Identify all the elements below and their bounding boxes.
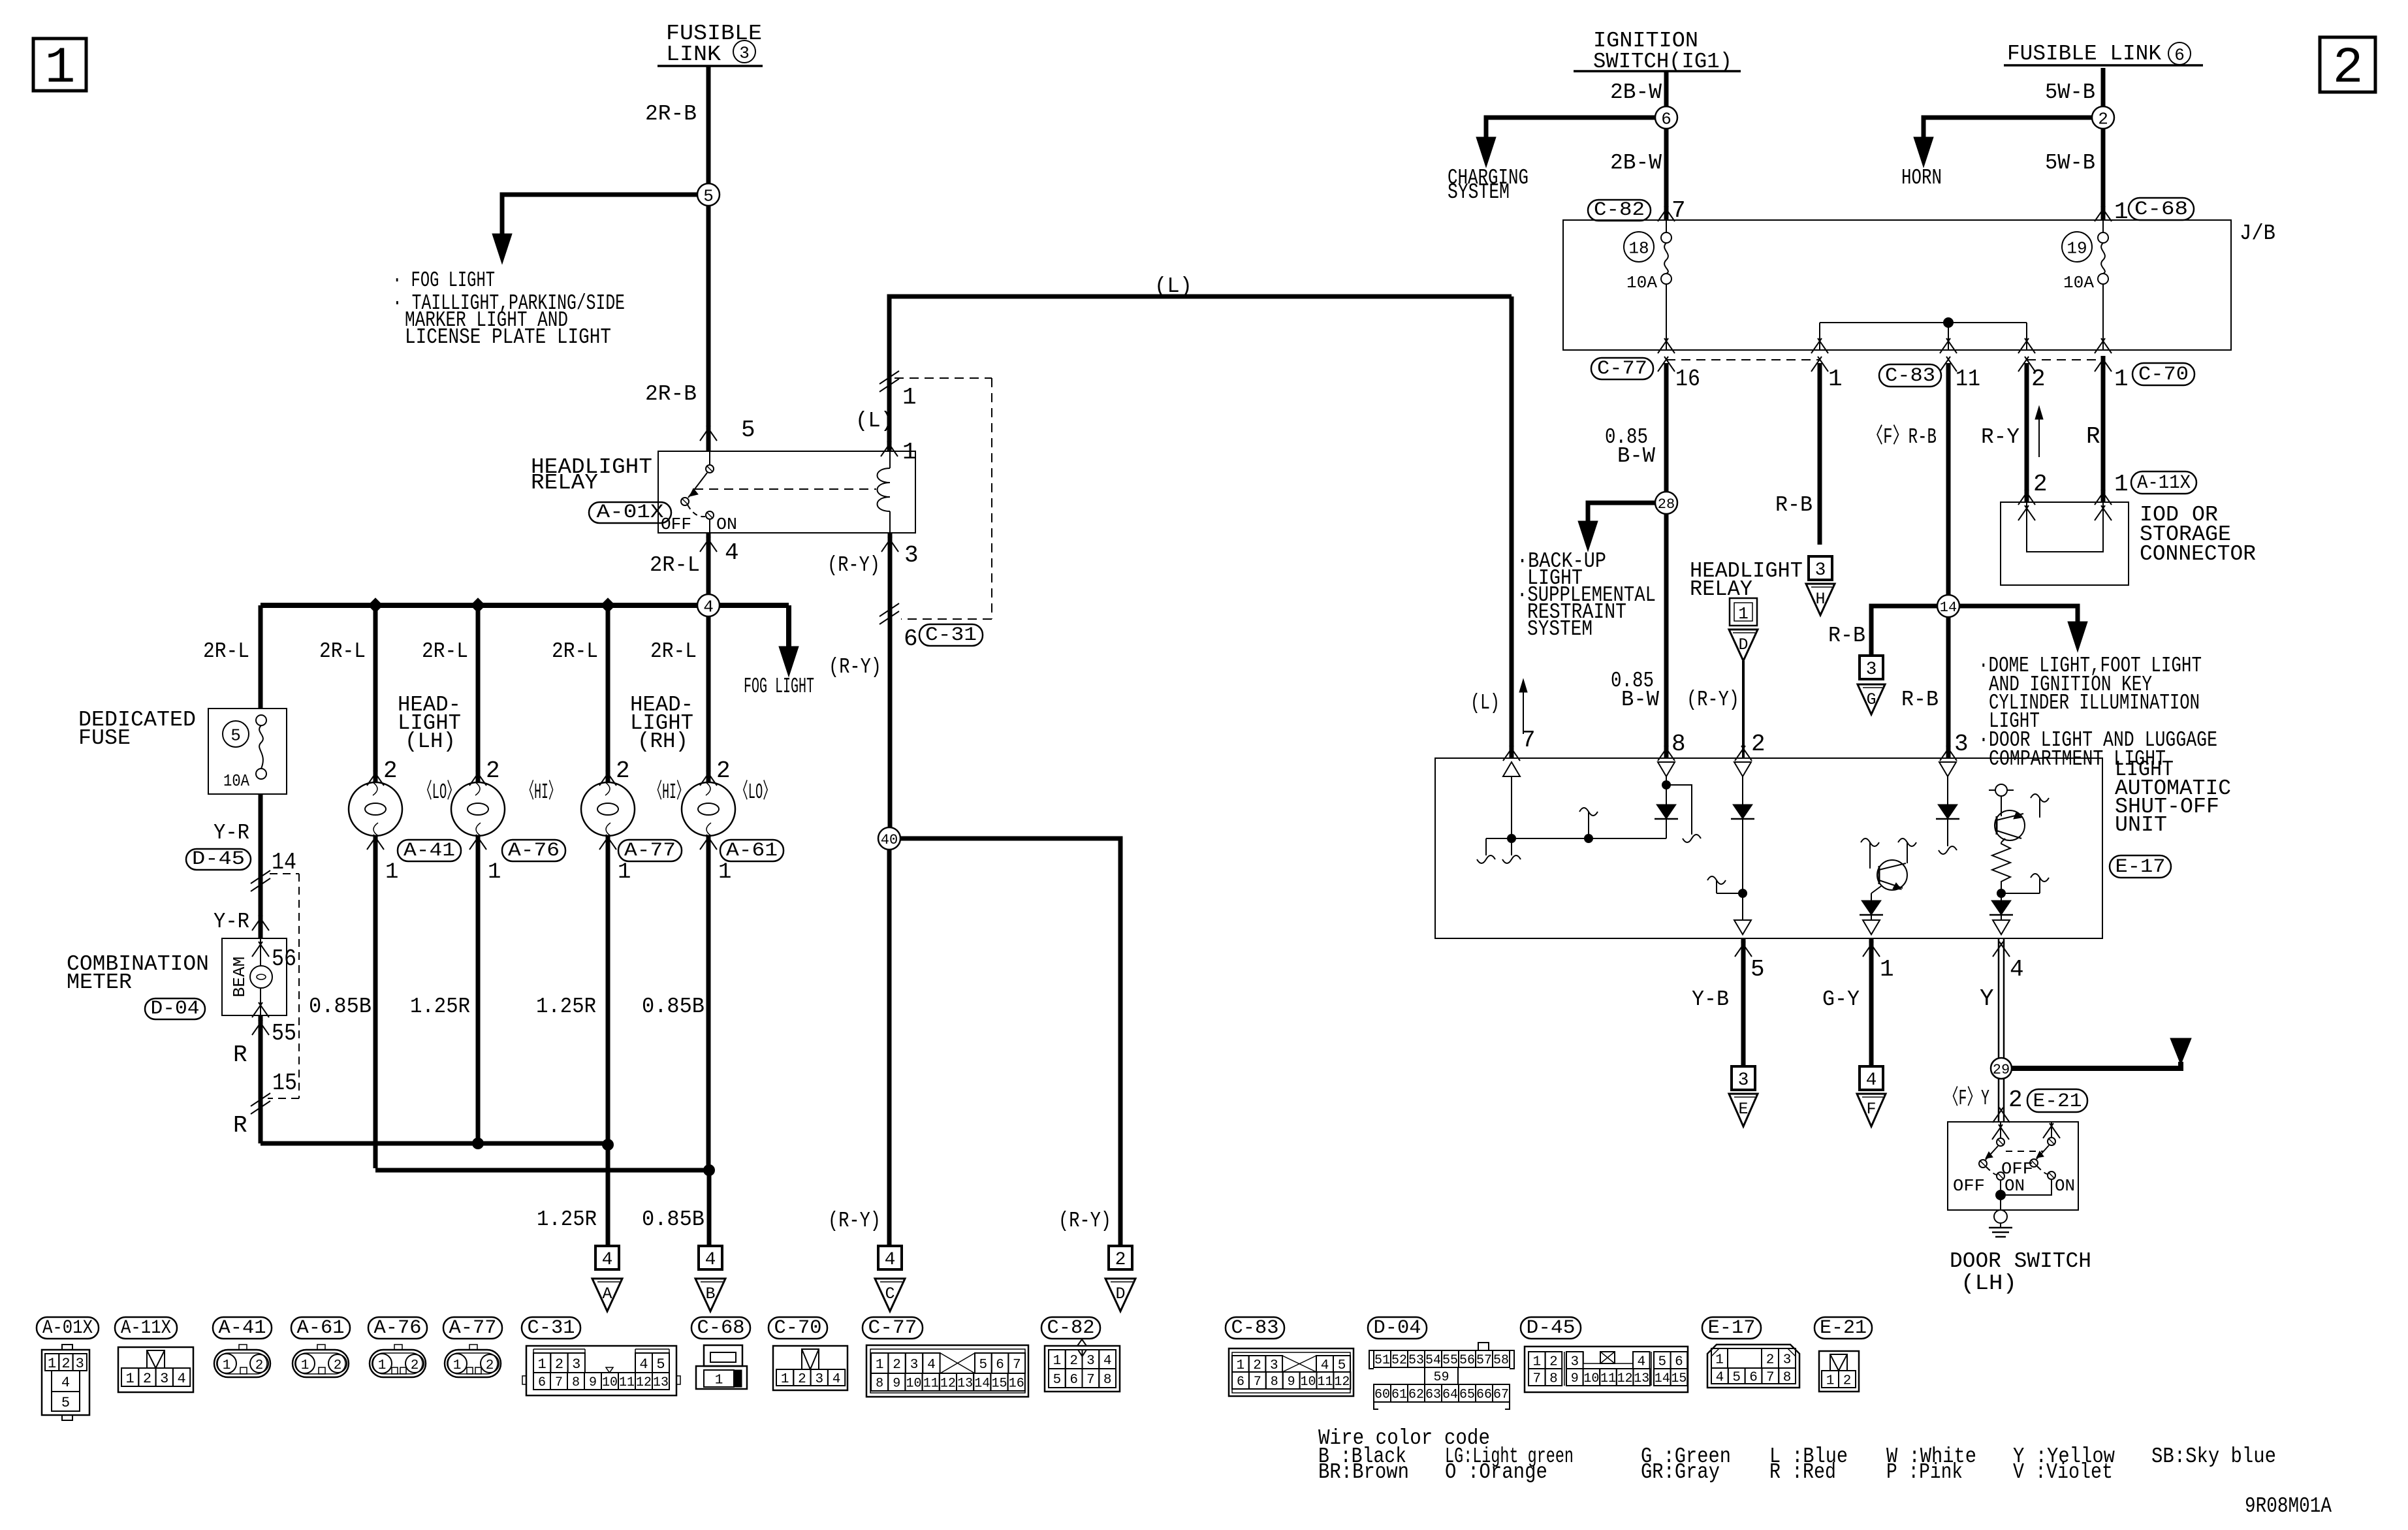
- svg-text:2B-W: 2B-W: [1610, 80, 1662, 104]
- svg-text:2: 2: [1766, 1353, 1775, 1368]
- svg-text:4: 4: [2010, 956, 2024, 983]
- svg-text:〈F〉Y: 〈F〉Y: [1944, 1086, 1989, 1111]
- svg-text:9: 9: [589, 1375, 597, 1390]
- svg-text:DOOR SWITCH: DOOR SWITCH: [1950, 1249, 2091, 1273]
- svg-text:O :Orange: O :Orange: [1445, 1460, 1547, 1484]
- svg-text:2R-L: 2R-L: [552, 639, 598, 663]
- svg-text:3: 3: [1738, 1070, 1749, 1091]
- svg-text:1: 1: [2114, 199, 2129, 225]
- svg-text:5W-B: 5W-B: [2045, 80, 2095, 104]
- svg-text:G: G: [1866, 690, 1876, 709]
- svg-text:A-77: A-77: [624, 840, 676, 862]
- svg-text:B: B: [705, 1284, 715, 1303]
- svg-text:B-W: B-W: [1617, 444, 1655, 468]
- svg-text:10: 10: [602, 1375, 618, 1390]
- svg-text:A-61: A-61: [297, 1317, 345, 1339]
- svg-text:1: 1: [126, 1371, 135, 1387]
- svg-text:1: 1: [718, 860, 731, 885]
- svg-text:1: 1: [902, 439, 917, 466]
- svg-text:1: 1: [1053, 1354, 1062, 1369]
- svg-text:29: 29: [1993, 1062, 2010, 1078]
- svg-text:4: 4: [705, 1250, 716, 1270]
- svg-text:8: 8: [1671, 731, 1686, 757]
- svg-text:2: 2: [1069, 1354, 1078, 1369]
- svg-text:GR:Gray: GR:Gray: [1641, 1460, 1720, 1484]
- svg-text:2R-L: 2R-L: [650, 553, 700, 577]
- svg-text:67: 67: [1493, 1388, 1509, 1403]
- svg-text:4: 4: [1637, 1355, 1645, 1370]
- svg-text:(RH): (RH): [637, 729, 688, 754]
- svg-text:CONNECTOR: CONNECTOR: [2140, 542, 2256, 566]
- svg-text:11: 11: [1600, 1371, 1616, 1386]
- svg-text:C-77: C-77: [1597, 358, 1647, 380]
- svg-text:R-B: R-B: [1901, 688, 1939, 712]
- svg-text:7: 7: [1086, 1373, 1095, 1388]
- svg-text:7: 7: [1254, 1375, 1261, 1390]
- svg-text:R-B: R-B: [1775, 493, 1813, 517]
- svg-text:2: 2: [143, 1371, 151, 1387]
- svg-text:C-77: C-77: [868, 1317, 917, 1339]
- svg-text:E: E: [1738, 1100, 1748, 1119]
- svg-text:J/B: J/B: [2240, 221, 2275, 246]
- svg-text:1: 1: [1826, 1374, 1835, 1389]
- svg-text:(R-Y): (R-Y): [1687, 688, 1739, 712]
- svg-text:SYSTEM: SYSTEM: [1448, 180, 1510, 204]
- svg-text:12: 12: [1334, 1375, 1350, 1390]
- svg-text:5: 5: [979, 1358, 988, 1373]
- svg-text:D-04: D-04: [1374, 1317, 1421, 1339]
- svg-text:Y-B: Y-B: [1692, 987, 1729, 1012]
- svg-text:(R-Y): (R-Y): [827, 553, 880, 577]
- svg-text:1: 1: [1715, 1353, 1724, 1368]
- svg-text:8: 8: [1271, 1375, 1278, 1390]
- svg-text:4: 4: [1716, 1371, 1724, 1386]
- svg-text:14: 14: [272, 849, 296, 876]
- svg-text:2: 2: [383, 757, 398, 784]
- svg-text:2R-L: 2R-L: [422, 639, 468, 663]
- svg-text:FUSE: FUSE: [78, 726, 131, 750]
- svg-text:D: D: [1115, 1284, 1125, 1303]
- svg-text:SB:Sky blue: SB:Sky blue: [2151, 1444, 2276, 1469]
- svg-text:12: 12: [940, 1377, 956, 1392]
- svg-text:10A: 10A: [1626, 273, 1657, 293]
- svg-text:(R-Y): (R-Y): [829, 655, 881, 679]
- svg-text:FUSIBLE LINK: FUSIBLE LINK: [2007, 42, 2161, 66]
- svg-text:OFF: OFF: [661, 515, 691, 534]
- svg-text:2: 2: [798, 1372, 806, 1387]
- svg-text:55: 55: [1442, 1353, 1458, 1368]
- svg-text:A-41: A-41: [404, 840, 455, 862]
- svg-text:14: 14: [1940, 599, 1957, 616]
- svg-text:0.85B: 0.85B: [642, 1207, 705, 1232]
- svg-text:C: C: [885, 1284, 895, 1303]
- svg-text:4: 4: [177, 1371, 185, 1387]
- svg-text:6: 6: [2174, 45, 2185, 65]
- svg-text:12: 12: [636, 1375, 652, 1390]
- svg-text:C-70: C-70: [774, 1317, 822, 1339]
- svg-text:R: R: [233, 1112, 247, 1139]
- svg-text:3: 3: [1086, 1354, 1095, 1369]
- svg-text:〈HI〉: 〈HI〉: [522, 780, 560, 805]
- svg-text:RELAY: RELAY: [531, 471, 598, 495]
- svg-text:1: 1: [876, 1358, 884, 1373]
- svg-text:7: 7: [1532, 1372, 1541, 1387]
- svg-text:D: D: [1738, 635, 1748, 654]
- svg-text:57: 57: [1476, 1353, 1492, 1368]
- svg-text:7: 7: [1013, 1358, 1021, 1373]
- svg-text:Y: Y: [1980, 985, 1994, 1012]
- svg-text:56: 56: [1459, 1353, 1475, 1368]
- svg-text:28: 28: [1658, 496, 1675, 513]
- svg-text:1: 1: [715, 1373, 723, 1388]
- svg-text:C-70: C-70: [2138, 364, 2189, 386]
- svg-text:9R08M01A: 9R08M01A: [2245, 1494, 2332, 1518]
- svg-text:2R-L: 2R-L: [203, 639, 249, 663]
- svg-text:9: 9: [1288, 1375, 1295, 1390]
- svg-text:4: 4: [703, 597, 714, 616]
- svg-text:4: 4: [61, 1375, 70, 1391]
- svg-text:R :Red: R :Red: [1769, 1460, 1836, 1484]
- svg-text:8: 8: [876, 1377, 883, 1392]
- svg-text:7: 7: [555, 1375, 563, 1390]
- svg-text:6: 6: [996, 1358, 1004, 1373]
- svg-text:4: 4: [1103, 1354, 1112, 1369]
- svg-text:4: 4: [927, 1358, 936, 1373]
- svg-text:2R-L: 2R-L: [650, 639, 697, 663]
- svg-text:ON: ON: [716, 515, 737, 534]
- svg-text:C-31: C-31: [925, 624, 977, 646]
- svg-text:METER: METER: [67, 970, 132, 995]
- svg-text:2: 2: [486, 1358, 494, 1373]
- svg-text:ON: ON: [2004, 1176, 2025, 1196]
- svg-text:2: 2: [2008, 1087, 2023, 1113]
- svg-text:2: 2: [255, 1358, 264, 1373]
- svg-text:LICENSE PLATE LIGHT: LICENSE PLATE LIGHT: [405, 325, 611, 349]
- svg-text:A-61: A-61: [726, 840, 778, 862]
- svg-text:3: 3: [572, 1356, 580, 1373]
- svg-text:11: 11: [923, 1377, 939, 1392]
- svg-text:E-21: E-21: [2033, 1091, 2082, 1113]
- svg-text:7: 7: [1766, 1371, 1775, 1386]
- svg-text:Y-R: Y-R: [214, 910, 249, 934]
- svg-text:2: 2: [2098, 109, 2108, 129]
- svg-text:P :Pink: P :Pink: [1886, 1460, 1963, 1484]
- svg-text:(L): (L): [855, 409, 893, 433]
- svg-text:2: 2: [2033, 471, 2048, 498]
- svg-text:1: 1: [1828, 366, 1843, 392]
- svg-text:5: 5: [1053, 1373, 1062, 1388]
- svg-text:(R-Y): (R-Y): [1058, 1209, 1111, 1233]
- svg-text:A: A: [602, 1284, 612, 1303]
- svg-text:1: 1: [453, 1358, 462, 1373]
- svg-text:A-11X: A-11X: [2137, 472, 2191, 494]
- svg-text:58: 58: [1493, 1353, 1509, 1368]
- svg-text:1: 1: [2114, 366, 2129, 392]
- svg-text:1: 1: [385, 860, 398, 885]
- svg-text:ON: ON: [2055, 1176, 2075, 1196]
- svg-text:SYSTEM: SYSTEM: [1527, 617, 1592, 641]
- svg-text:1: 1: [1738, 604, 1749, 624]
- svg-text:2R-B: 2R-B: [645, 102, 697, 126]
- svg-text:2B-W: 2B-W: [1610, 151, 1662, 175]
- svg-text:6: 6: [1675, 1355, 1683, 1370]
- svg-text:OFF: OFF: [1953, 1176, 1985, 1196]
- svg-text:10A: 10A: [2063, 273, 2094, 293]
- svg-text:5: 5: [1338, 1358, 1346, 1373]
- svg-text:2: 2: [1115, 1250, 1126, 1270]
- svg-text:63: 63: [1425, 1388, 1441, 1403]
- svg-text:G-Y: G-Y: [1822, 987, 1860, 1012]
- svg-text:E-17: E-17: [2115, 856, 2166, 878]
- svg-text:13: 13: [1634, 1371, 1649, 1386]
- svg-text:5: 5: [656, 1356, 665, 1373]
- svg-text:C-31: C-31: [528, 1317, 575, 1339]
- svg-text:C-83: C-83: [1231, 1317, 1279, 1339]
- svg-text:D-45: D-45: [1527, 1317, 1576, 1339]
- svg-text:(LH): (LH): [405, 729, 456, 754]
- svg-text:13: 13: [653, 1375, 669, 1390]
- svg-text:R-Y: R-Y: [1981, 425, 2020, 449]
- svg-text:4: 4: [725, 539, 739, 566]
- svg-text:5: 5: [61, 1395, 70, 1411]
- svg-text:4: 4: [832, 1372, 841, 1387]
- svg-text:40: 40: [881, 832, 898, 848]
- svg-text:8: 8: [1549, 1372, 1558, 1387]
- svg-text:A-76: A-76: [374, 1317, 422, 1339]
- svg-text:61: 61: [1391, 1388, 1407, 1403]
- svg-text:3: 3: [815, 1372, 823, 1387]
- svg-text:6: 6: [1237, 1375, 1244, 1390]
- svg-text:1: 1: [378, 1358, 387, 1373]
- svg-text:8: 8: [1783, 1371, 1792, 1386]
- svg-text:14: 14: [974, 1377, 990, 1392]
- svg-text:51: 51: [1374, 1353, 1390, 1368]
- svg-text:UNIT: UNIT: [2115, 813, 2167, 837]
- svg-text:3: 3: [76, 1356, 84, 1372]
- svg-text:10: 10: [1301, 1375, 1316, 1390]
- svg-text:2: 2: [2333, 40, 2364, 97]
- svg-text:4: 4: [1866, 1070, 1877, 1091]
- svg-text:19: 19: [2067, 238, 2087, 258]
- svg-text:1.25R: 1.25R: [537, 1207, 597, 1232]
- svg-text:2: 2: [2031, 366, 2046, 392]
- svg-text:55: 55: [272, 1020, 296, 1047]
- svg-text:11: 11: [1956, 366, 1980, 392]
- svg-text:3: 3: [1866, 660, 1877, 680]
- svg-text:65: 65: [1459, 1388, 1475, 1403]
- svg-text:C-68: C-68: [697, 1317, 745, 1339]
- svg-text:1: 1: [301, 1358, 309, 1373]
- svg-text:A-11X: A-11X: [121, 1317, 171, 1339]
- svg-text:4: 4: [885, 1250, 896, 1270]
- svg-text:〈F〉R-B: 〈F〉R-B: [1867, 424, 1937, 449]
- svg-text:A-41: A-41: [219, 1317, 266, 1339]
- svg-text:5: 5: [230, 725, 241, 745]
- svg-text:〈LO〉: 〈LO〉: [736, 780, 775, 805]
- svg-text:5: 5: [703, 186, 714, 206]
- svg-text:18: 18: [1628, 238, 1649, 258]
- svg-text:〈LO〉: 〈LO〉: [420, 780, 459, 805]
- svg-text:2: 2: [1843, 1374, 1852, 1389]
- svg-text:54: 54: [1425, 1353, 1441, 1368]
- svg-text:E-21: E-21: [1820, 1317, 1867, 1339]
- svg-text:LINK: LINK: [666, 42, 721, 67]
- svg-text:11: 11: [619, 1375, 635, 1390]
- svg-text:60: 60: [1374, 1388, 1390, 1403]
- svg-text:1: 1: [1880, 956, 1894, 983]
- svg-text:52: 52: [1391, 1353, 1407, 1368]
- svg-text:3: 3: [1270, 1358, 1278, 1373]
- svg-text:15: 15: [272, 1070, 297, 1096]
- svg-text:(R-Y): (R-Y): [828, 1209, 881, 1233]
- svg-text:0.85B: 0.85B: [642, 995, 705, 1019]
- svg-text:3: 3: [160, 1371, 168, 1387]
- svg-text:6: 6: [1069, 1373, 1078, 1388]
- svg-text:FOG LIGHT: FOG LIGHT: [744, 675, 814, 699]
- svg-text:12: 12: [1617, 1371, 1633, 1386]
- svg-text:C-82: C-82: [1594, 199, 1645, 221]
- svg-text:56: 56: [272, 946, 296, 972]
- svg-text:11: 11: [1317, 1375, 1333, 1390]
- svg-text:E-17: E-17: [1708, 1317, 1756, 1339]
- svg-text:4: 4: [602, 1250, 613, 1270]
- svg-text:6: 6: [1661, 109, 1671, 129]
- svg-text:BEAM: BEAM: [230, 957, 249, 997]
- svg-text:13: 13: [957, 1377, 973, 1392]
- svg-text:2: 2: [1253, 1358, 1261, 1373]
- svg-text:62: 62: [1408, 1388, 1424, 1403]
- svg-text:5: 5: [741, 417, 755, 443]
- svg-text:(L): (L): [1470, 691, 1500, 715]
- svg-text:R-B: R-B: [1828, 624, 1865, 648]
- svg-text:5: 5: [1732, 1371, 1741, 1386]
- svg-text:0.85B: 0.85B: [309, 995, 372, 1019]
- svg-text:1: 1: [488, 860, 501, 885]
- svg-text:HORN: HORN: [1901, 166, 1942, 190]
- svg-text:14: 14: [1655, 1371, 1670, 1386]
- svg-text:5: 5: [1751, 956, 1765, 983]
- svg-text:· FOG LIGHT: · FOG LIGHT: [392, 268, 495, 293]
- svg-text:BR:Brown: BR:Brown: [1318, 1460, 1409, 1484]
- svg-text:2: 2: [411, 1358, 419, 1373]
- svg-text:15: 15: [991, 1377, 1007, 1392]
- svg-text:6: 6: [1749, 1371, 1758, 1386]
- svg-text:2: 2: [716, 757, 731, 784]
- svg-text:8: 8: [572, 1375, 580, 1390]
- svg-text:D-04: D-04: [151, 998, 200, 1020]
- svg-text:15: 15: [1671, 1371, 1687, 1386]
- svg-text:3: 3: [1954, 731, 1969, 757]
- svg-text:R: R: [2086, 423, 2100, 450]
- svg-text:B-W: B-W: [1621, 688, 1659, 712]
- svg-text:2R-B: 2R-B: [645, 382, 697, 406]
- svg-text:10A: 10A: [223, 771, 249, 791]
- svg-text:1: 1: [48, 1356, 56, 1372]
- svg-text:(L): (L): [1154, 274, 1192, 298]
- svg-text:1: 1: [1532, 1355, 1541, 1370]
- svg-text:3: 3: [904, 542, 919, 569]
- svg-text:1: 1: [538, 1356, 547, 1373]
- svg-text:6: 6: [538, 1375, 546, 1390]
- svg-text:D-45: D-45: [192, 848, 245, 870]
- svg-text:1.25R: 1.25R: [410, 995, 470, 1019]
- svg-text:9: 9: [893, 1377, 900, 1392]
- svg-text:3: 3: [1815, 560, 1826, 581]
- svg-text:10: 10: [906, 1377, 921, 1392]
- svg-text:4: 4: [1321, 1358, 1329, 1373]
- svg-text:A-76: A-76: [508, 840, 560, 862]
- svg-text:10: 10: [1583, 1371, 1599, 1386]
- svg-text:F: F: [1866, 1100, 1876, 1119]
- svg-text:〈HI〉: 〈HI〉: [650, 780, 688, 805]
- svg-text:2: 2: [1549, 1355, 1558, 1370]
- svg-text:1: 1: [902, 384, 917, 411]
- svg-text:1: 1: [1237, 1358, 1245, 1373]
- svg-text:2: 2: [1751, 731, 1766, 757]
- svg-text:4: 4: [639, 1356, 648, 1373]
- svg-text:R: R: [233, 1042, 247, 1068]
- svg-text:5: 5: [1658, 1355, 1666, 1370]
- svg-text:64: 64: [1442, 1388, 1458, 1403]
- svg-text:2: 2: [616, 757, 630, 784]
- svg-text:H: H: [1815, 590, 1825, 609]
- svg-text:1: 1: [781, 1372, 789, 1387]
- svg-text:C-68: C-68: [2134, 199, 2188, 221]
- svg-text:A-77: A-77: [449, 1317, 497, 1339]
- svg-text:8: 8: [1103, 1373, 1112, 1388]
- svg-text:6: 6: [904, 626, 918, 652]
- svg-text:3: 3: [1783, 1353, 1792, 1368]
- svg-text:3: 3: [910, 1358, 919, 1373]
- svg-text:1: 1: [223, 1358, 231, 1373]
- svg-text:1: 1: [45, 40, 76, 97]
- svg-text:1: 1: [2114, 471, 2129, 498]
- svg-text:2: 2: [61, 1356, 70, 1372]
- svg-text:59: 59: [1433, 1370, 1449, 1385]
- svg-text:3: 3: [1570, 1355, 1579, 1370]
- svg-text:2: 2: [486, 757, 500, 784]
- svg-text:2R-L: 2R-L: [319, 639, 366, 663]
- svg-text:16: 16: [1675, 366, 1700, 392]
- svg-text:1: 1: [618, 860, 631, 885]
- svg-text:53: 53: [1408, 1353, 1424, 1368]
- svg-text:2: 2: [555, 1356, 563, 1373]
- svg-text:66: 66: [1476, 1388, 1492, 1403]
- svg-text:C-83: C-83: [1885, 365, 1935, 387]
- svg-text:9: 9: [1571, 1371, 1579, 1386]
- svg-text:2: 2: [334, 1358, 342, 1373]
- svg-text:16: 16: [1009, 1377, 1024, 1392]
- svg-text:A-01X: A-01X: [597, 502, 664, 524]
- svg-text:A-01X: A-01X: [42, 1317, 93, 1339]
- svg-text:OFF: OFF: [2001, 1159, 2033, 1179]
- svg-text:Y-R: Y-R: [214, 821, 249, 845]
- svg-text:3: 3: [739, 43, 750, 63]
- svg-text:5W-B: 5W-B: [2045, 151, 2095, 175]
- svg-text:2: 2: [893, 1358, 901, 1373]
- svg-text:(LH): (LH): [1961, 1271, 2017, 1296]
- svg-text:C-82: C-82: [1047, 1317, 1095, 1339]
- svg-text:V :Violet: V :Violet: [2013, 1460, 2113, 1484]
- svg-text:1.25R: 1.25R: [536, 995, 596, 1019]
